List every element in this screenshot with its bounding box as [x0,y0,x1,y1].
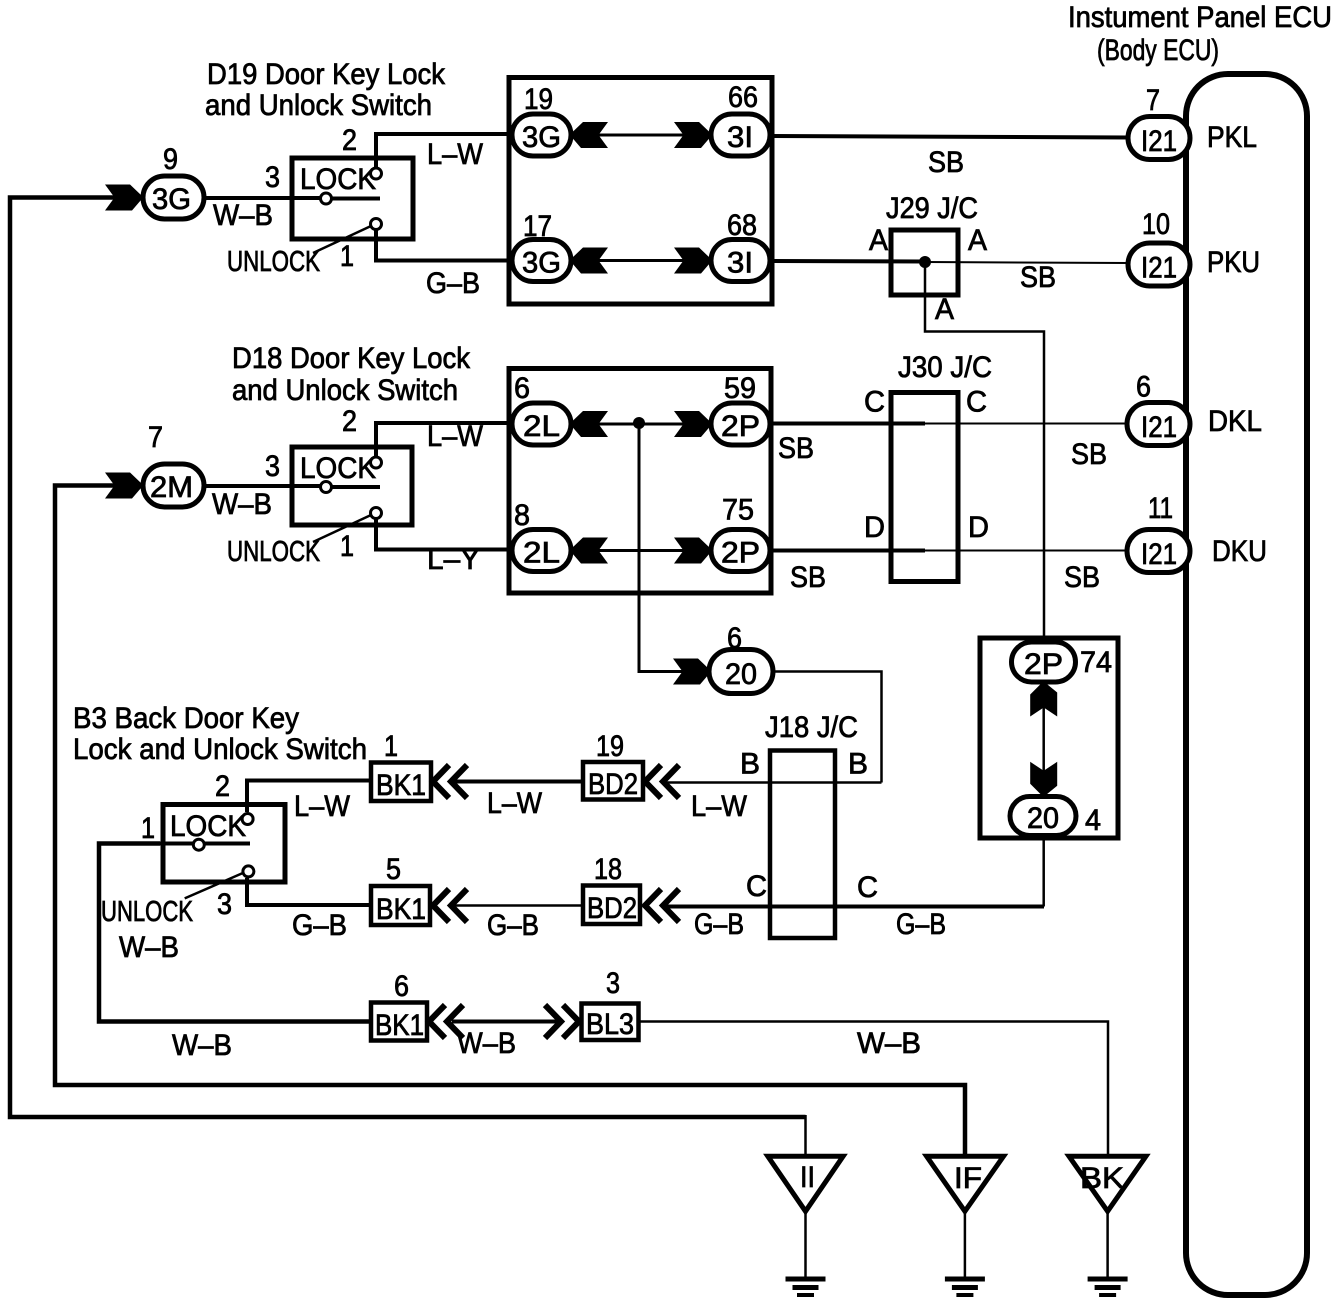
svg-text:6: 6 [394,970,409,1003]
wire BL3 to BK ground [639,1022,1108,1157]
wire 2M to switch [204,484,322,488]
wire BK1-6 to BL3 [452,1020,562,1024]
connector 20 pin 6 [709,650,773,694]
svg-text:4: 4 [1085,804,1101,837]
svg-text:W–B: W–B [213,199,273,232]
wire BK1 to BD2 row B [452,780,583,784]
svg-text:BK1: BK1 [376,893,426,926]
connector I21 pin 11 DKU [1127,530,1190,573]
svg-text:G–B: G–B [487,909,539,942]
connector 2L pin 6 [512,403,571,445]
connector BL3 pin 3 [582,1004,639,1041]
svg-text:UNLOCK: UNLOCK [101,896,193,928]
svg-text:D: D [864,511,885,544]
svg-text:SB: SB [928,146,964,179]
contact pin3 [321,482,332,493]
svg-text:W–B: W–B [457,1027,516,1060]
svg-text:5: 5 [386,853,401,886]
svg-text:L–W: L–W [427,138,484,171]
svg-text:1: 1 [340,240,354,273]
svg-text:I21: I21 [1141,125,1177,158]
svg-text:2M: 2M [150,471,193,504]
chevrons after BK1-1 [433,765,449,798]
wire BK1 to BD2 row C [452,904,583,907]
svg-text:6: 6 [727,622,742,655]
svg-text:2: 2 [215,770,230,803]
svg-text:LOCK: LOCK [300,452,376,485]
svg-text:SB: SB [1020,261,1056,294]
wire pin2 to BK1 [247,781,371,813]
wire B row thin [664,781,882,784]
node dot [633,417,645,429]
chevrons before BL3 [545,1005,561,1038]
arrow down [1030,762,1057,795]
svg-text:1: 1 [340,530,354,563]
svg-text:DKU: DKU [1212,535,1267,568]
svg-text:II: II [800,1161,815,1194]
svg-text:3G: 3G [522,247,561,280]
svg-text:2P: 2P [721,537,760,570]
contact pin3 [321,193,332,204]
D19 switch box [292,158,413,239]
ground triangle BK [1069,1156,1146,1211]
svg-text:1: 1 [384,730,398,763]
svg-text:(Body ECU): (Body ECU) [1097,34,1219,67]
svg-text:59: 59 [724,372,756,405]
svg-text:68: 68 [727,209,757,242]
svg-text:and Unlock Switch: and Unlock Switch [205,89,432,122]
svg-text:I21: I21 [1141,252,1177,285]
wire pin1 L-Y [376,519,511,550]
svg-text:74: 74 [1080,646,1112,679]
svg-text:DKL: DKL [1208,405,1262,438]
svg-text:UNLOCK: UNLOCK [227,536,321,568]
contact pin1 [193,839,204,850]
switch blade [99,842,250,846]
connector 3G pin 9 [143,176,204,219]
svg-text:7: 7 [1146,84,1160,117]
Instrument Panel ECU body [1186,74,1307,1295]
svg-text:G–B: G–B [292,909,347,942]
arrow into 3G [105,185,141,211]
connector BK1 pin 5 [371,886,430,925]
svg-text:C: C [864,386,885,419]
svg-text:J30 J/C: J30 J/C [898,351,992,384]
connector 20 pin 4 [1010,797,1076,836]
svg-text:G–B: G–B [896,908,946,941]
svg-text:L–W: L–W [427,420,484,453]
svg-text:SB: SB [1071,438,1107,471]
svg-text:19: 19 [596,730,624,763]
svg-text:Lock and Unlock Switch: Lock and Unlock Switch [73,733,367,766]
svg-text:6: 6 [514,372,530,405]
svg-text:3: 3 [265,161,280,194]
connector block box [509,369,771,594]
svg-text:SB: SB [1064,561,1100,594]
wire pin2 L-W [376,423,511,457]
svg-text:G–B: G–B [426,267,480,300]
wire from 20/4 down to C row [1042,838,1045,907]
chevrons after BK1-5 [433,889,449,922]
junction J30 J/C [891,393,958,582]
wire pin1 G-B [376,230,511,261]
svg-text:D18 Door Key Lock: D18 Door Key Lock [232,342,471,375]
svg-text:3G: 3G [152,183,191,216]
svg-text:PKU: PKU [1207,246,1260,279]
unlock pointer line [313,226,371,253]
wire SB thick to J30 row D [771,549,925,553]
svg-text:LOCK: LOCK [170,810,246,843]
svg-text:6: 6 [1136,371,1151,404]
svg-text:W–B: W–B [172,1029,232,1062]
row 6/59 wire [542,423,740,426]
wire SB thin J30 to DKL [925,423,1128,425]
connector BD2 pin 19 [583,762,643,800]
chevrons after BK1-6 [429,1005,445,1038]
wire SB thin J30 to DKU [925,550,1128,552]
connector BK1 pin 6 [371,1003,427,1041]
svg-text:BD2: BD2 [588,768,638,801]
svg-text:D: D [968,511,989,544]
svg-text:2: 2 [342,405,357,438]
wire SB thin J29 to PKU [925,262,1129,263]
svg-text:PKL: PKL [1207,121,1257,154]
svg-text:W–B: W–B [857,1027,921,1060]
arrow into 20 [673,659,709,685]
svg-text:C: C [746,870,767,903]
connector 2P pin 59 [711,403,770,445]
svg-text:I21: I21 [1141,538,1177,571]
svg-text:C: C [857,871,878,904]
arrow to 2L [572,411,608,437]
svg-text:A: A [935,293,954,326]
row 17/68 wire [542,259,740,262]
svg-text:I21: I21 [1141,411,1177,444]
arrow to 3G [572,122,608,148]
connector 2P pin 75 [711,530,770,572]
wire C row [664,905,1044,909]
vertical link in 2P74 [1042,695,1045,785]
svg-text:B: B [848,748,868,781]
contact pin3 [243,866,254,877]
wire SB thick to J29 [772,259,925,264]
svg-text:W–B: W–B [119,931,179,964]
connector I21 pin 10 PKU [1128,243,1190,286]
arrow to 3I [674,122,710,148]
svg-text:66: 66 [728,81,758,114]
svg-text:8: 8 [514,499,530,532]
chevrons after BD2-19 [645,765,661,798]
wire W-B from D18 switch to ground IF [55,486,965,1157]
wire from dot down to 20 oval [639,423,684,672]
wire pin3 to BK1 [247,878,371,905]
connector I21 pin 7 PKL [1128,117,1190,160]
connector 2P pin 74 [1012,642,1076,682]
svg-text:SB: SB [790,561,826,594]
row 8/75 wire [542,549,740,552]
arrow to 2L lower [572,538,608,564]
svg-text:C: C [966,386,987,419]
wire SB thick to J30 row C [771,422,925,426]
arrow to 3I lower [674,248,710,274]
svg-text:75: 75 [722,494,754,527]
svg-text:10: 10 [1142,208,1170,241]
svg-text:L–W: L–W [691,790,748,823]
connector 2M pin 7 [143,464,204,507]
svg-text:D19 Door Key Lock: D19 Door Key Lock [207,58,446,91]
svg-text:2P: 2P [721,410,760,443]
contact pin1 [371,508,382,519]
svg-text:2P: 2P [1024,648,1063,681]
node dot in J29 [919,256,931,268]
wire W-B from B3 switch pin1 down [99,844,371,1022]
svg-text:SB: SB [778,432,814,465]
connector 3G pin 19 [512,114,571,156]
svg-text:Instument Panel ECU: Instument Panel ECU [1068,1,1332,34]
svg-text:7: 7 [148,421,163,454]
svg-text:UNLOCK: UNLOCK [227,246,321,278]
svg-text:3I: 3I [727,247,753,280]
connector 3G pin 17 [512,240,571,282]
row 19/66 wire [542,134,740,137]
arrow to 2P [674,411,710,437]
arrow to 2P lower [674,538,710,564]
connector BK1 pin 1 [371,763,431,802]
wire from J29 down to 2P74 block [925,262,1044,640]
svg-text:BL3: BL3 [586,1008,634,1041]
svg-text:2L: 2L [523,410,560,443]
contact pin2 [371,457,382,468]
switch blade [322,197,380,201]
svg-text:3: 3 [606,967,620,1000]
svg-text:B3 Back Door Key: B3 Back Door Key [73,702,299,735]
chevrons after BD2-18 [645,889,661,922]
svg-text:L–W: L–W [294,790,351,823]
contact pin1 [371,219,382,230]
svg-text:BK1: BK1 [376,769,426,802]
svg-text:20: 20 [1027,802,1059,835]
svg-text:LOCK: LOCK [300,163,376,196]
block 2P74 [980,638,1118,838]
svg-text:J18 J/C: J18 J/C [765,711,858,744]
svg-text:2: 2 [342,124,357,157]
svg-text:11: 11 [1148,492,1173,525]
svg-text:1: 1 [141,812,155,845]
svg-text:17: 17 [523,210,552,243]
contact pin2 [242,814,253,825]
svg-text:3I: 3I [727,121,753,154]
svg-text:9: 9 [163,143,178,176]
contact pin2 [371,168,382,179]
svg-text:3: 3 [265,450,280,483]
svg-text:3: 3 [217,888,232,921]
svg-text:BD2: BD2 [587,892,637,925]
svg-text:19: 19 [524,83,553,116]
svg-text:18: 18 [594,853,622,886]
connector I21 pin 6 DKL [1127,403,1190,446]
wire 3G to switch [204,196,322,200]
unlock pointer line [313,515,371,542]
D18 switch box [292,447,412,525]
connector 2L pin 8 [512,530,571,572]
svg-text:IF: IF [954,1162,982,1195]
junction J29 J/C [891,230,958,295]
svg-text:BK: BK [1080,1162,1124,1195]
wire from 20 to B row [773,672,882,783]
connector BD2 pin 18 [583,886,640,925]
svg-text:2L: 2L [523,537,560,570]
switch blade [322,485,380,489]
ground triangle II [768,1156,843,1211]
svg-text:W–B: W–B [212,488,272,521]
connector block box [509,78,772,305]
wire SB to PKL [772,136,1129,138]
arrow into 2M [105,473,141,499]
arrow to 3G lower [572,248,608,274]
connector 3I pin 66 [711,114,770,156]
connector 3I pin 68 [711,240,770,282]
svg-text:and Unlock Switch: and Unlock Switch [232,374,458,407]
svg-text:L–Y: L–Y [427,543,480,576]
ground triangle IF [927,1156,1004,1211]
svg-text:20: 20 [725,658,757,691]
svg-text:A: A [869,224,888,257]
svg-text:BK1: BK1 [375,1009,424,1042]
wire W-B from D19 switch to ground II [10,198,806,1118]
svg-text:G–B: G–B [694,908,744,941]
junction J18 J/C [770,751,835,939]
svg-text:J29 J/C: J29 J/C [886,192,978,225]
svg-text:3G: 3G [522,121,561,154]
wire pin2 L-W [376,134,511,168]
svg-text:A: A [968,224,987,257]
svg-text:B: B [740,748,760,781]
unlock pointer line [185,873,244,899]
B3 switch box [163,805,285,883]
svg-text:L–W: L–W [487,787,543,820]
arrow up [1030,684,1057,717]
